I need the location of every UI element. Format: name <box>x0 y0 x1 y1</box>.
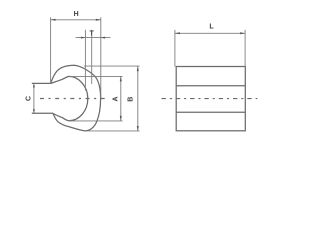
dimension C line <box>33 83 35 113</box>
left view: C-sleeve cross-section outer boundary <box>51 65 101 131</box>
slot lip bottom edge <box>32 112 53 114</box>
dimension H extension lines <box>50 17 52 82</box>
right view internal line top <box>176 85 245 87</box>
svg-text:A: A <box>113 96 120 101</box>
svg-text:C: C <box>26 96 33 101</box>
dimension T extension lines <box>84 30 86 91</box>
right view: side rectangle <box>176 67 245 131</box>
dimension T line with outside arrows <box>76 37 111 39</box>
dimension L line <box>175 32 245 34</box>
centerline right view <box>162 98 258 100</box>
dimension C arrows <box>33 83 35 87</box>
svg-text:H: H <box>74 11 79 18</box>
svg-text:B: B <box>128 97 135 102</box>
dimension A line <box>120 76 122 121</box>
centerline left view <box>40 98 109 100</box>
dimension B line <box>137 66 139 131</box>
dimension H line <box>51 19 101 21</box>
slot lip top edge <box>32 82 51 84</box>
right view internal line bottom <box>176 111 245 113</box>
svg-text:T: T <box>89 31 94 38</box>
left view: inner opening boundary <box>51 76 88 120</box>
dimension B extension lines <box>84 65 140 67</box>
svg-text:L: L <box>209 24 214 31</box>
dimension A extension lines <box>70 75 123 77</box>
dimension L extension lines <box>174 30 176 67</box>
